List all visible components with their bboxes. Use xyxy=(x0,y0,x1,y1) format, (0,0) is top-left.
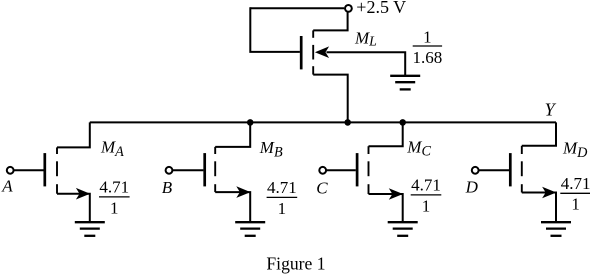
junction dot (ML source) xyxy=(344,119,351,126)
svg-text:4.71: 4.71 xyxy=(561,174,590,193)
transistor MD (NMOS) xyxy=(510,146,556,199)
wire MA drain to rail xyxy=(57,122,90,147)
svg-text:D: D xyxy=(465,177,479,196)
node Y output rail xyxy=(90,121,556,123)
svg-text:4.71: 4.71 xyxy=(267,178,297,197)
wire MD drain to rail xyxy=(522,122,556,145)
svg-text:A: A xyxy=(1,177,13,196)
transistor ML (NMOS load) xyxy=(301,30,329,74)
terminal input D xyxy=(472,167,479,174)
ground (MB source) xyxy=(235,222,265,236)
wire VDD top horizontal xyxy=(250,7,344,9)
ground (MC source) xyxy=(388,222,418,236)
terminal input C xyxy=(319,167,326,174)
value label 4.71/1 xyxy=(99,178,130,218)
svg-text:1: 1 xyxy=(278,199,287,218)
svg-text:1: 1 xyxy=(423,27,432,46)
wire ML drain to +2.5 V xyxy=(313,12,347,30)
svg-text:1: 1 xyxy=(571,195,580,214)
terminal input B xyxy=(166,167,173,174)
svg-text:4.71: 4.71 xyxy=(411,176,441,195)
value label 1/1.68 xyxy=(413,27,443,67)
svg-text:1: 1 xyxy=(422,196,431,215)
wire input A to gate xyxy=(14,169,44,171)
value label 4.71/1 xyxy=(267,178,298,218)
junction dot (MB drain) xyxy=(247,119,254,126)
svg-text:1: 1 xyxy=(110,198,119,217)
wire MA source to ground xyxy=(57,194,90,223)
wire MB drain to rail xyxy=(215,122,250,146)
value label 4.71/1 xyxy=(560,174,590,214)
svg-text:4.71: 4.71 xyxy=(99,178,129,197)
transistor MB (NMOS) xyxy=(205,147,251,198)
wire MD source to ground xyxy=(522,193,556,223)
wire MC drain to rail xyxy=(369,122,403,146)
value label 4.71/1 xyxy=(411,176,442,216)
ground (MA source) xyxy=(75,222,105,236)
svg-text:+2.5 V: +2.5 V xyxy=(356,0,406,17)
ground (ML body) xyxy=(390,76,420,90)
svg-text:C: C xyxy=(316,179,328,198)
transistor MA (NMOS) xyxy=(45,147,90,199)
ground (MD source) xyxy=(541,222,571,236)
wire ML body to ground xyxy=(327,52,406,76)
wire input D to gate xyxy=(479,169,509,171)
wire input C to gate xyxy=(326,169,356,171)
svg-text:B: B xyxy=(162,178,173,197)
wire VDD down-left to ML gate xyxy=(250,7,300,52)
svg-text:Figure 1: Figure 1 xyxy=(266,254,325,274)
wire MC source to ground xyxy=(369,194,403,222)
junction dot (MC drain) xyxy=(399,119,406,126)
terminal +2.5 V supply circle xyxy=(345,5,352,12)
svg-text:1.68: 1.68 xyxy=(413,48,443,67)
wire MB source to ground xyxy=(215,192,250,222)
terminal input A xyxy=(7,167,14,174)
wire ML source down to output rail xyxy=(313,75,348,123)
wire input B to gate xyxy=(172,169,203,171)
transistor MC (NMOS) xyxy=(357,146,403,200)
